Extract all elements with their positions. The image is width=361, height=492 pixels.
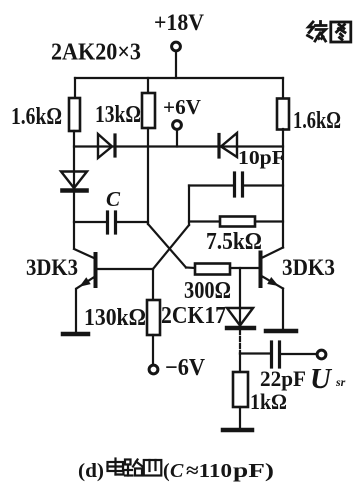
diode D1 right-pointing [98, 134, 115, 158]
wire left base lead [96, 268, 153, 270]
wire node to 1k [239, 354, 241, 373]
svg-text:3DK3: 3DK3 [282, 255, 335, 280]
svg-text:1.6kΩ: 1.6kΩ [293, 108, 341, 134]
label Usr [310, 363, 346, 395]
transistor Q2 right 3DK3 [261, 248, 284, 289]
wire 1k bottom lead [239, 407, 241, 428]
wire 13k top lead [147, 78, 149, 93]
wire 300 left lead [186, 266, 195, 269]
wire +18V drop [175, 51, 177, 78]
svg-text:7.5kΩ: 7.5kΩ [206, 229, 262, 255]
wire right rail drop [282, 78, 284, 99]
wire 130k bottom lead [152, 335, 154, 365]
svg-text:pF): pF) [233, 460, 274, 482]
ground bottom [223, 428, 252, 433]
wire 130k top lead [152, 269, 154, 300]
transistor Q1 left 3DK3 [74, 249, 96, 289]
wire left column upper [73, 131, 75, 189]
svg-text:+18V: +18V [154, 10, 204, 35]
wire right emitter [282, 289, 284, 330]
wire 2CK17 bottom dashed [239, 330, 241, 354]
wire right column [282, 129, 284, 248]
wire diode rail [74, 145, 283, 147]
svg-text:+6V: +6V [163, 95, 201, 119]
wire cross diagonal A [148, 224, 186, 268]
resistor 1k [233, 372, 248, 407]
ground left emitter [63, 332, 88, 337]
wire 2CK17 top lead [239, 268, 241, 308]
svg-text:(d): (d) [78, 460, 104, 482]
svg-text:C: C [170, 460, 184, 482]
svg-text:−6V: −6V [165, 355, 206, 381]
diode D3 zener left [61, 172, 87, 191]
caption formula [163, 460, 274, 482]
svg-text:C: C [106, 187, 121, 211]
svg-text:22pF: 22pF [260, 366, 306, 391]
svg-text:1.6kΩ: 1.6kΩ [11, 104, 62, 130]
wire left column lower [73, 189, 75, 248]
svg-text:1kΩ: 1kΩ [250, 389, 287, 414]
capacitor 10pF [189, 173, 283, 196]
svg-text:3DK3: 3DK3 [26, 255, 78, 280]
wire 13k bottom column [147, 128, 149, 224]
terminal -6V [149, 365, 158, 374]
svg-text:13kΩ: 13kΩ [95, 102, 141, 128]
svg-text:2CK17: 2CK17 [161, 303, 226, 329]
resistor 300 [195, 264, 230, 275]
resistor 1.6k left [69, 98, 80, 131]
svg-text:130kΩ: 130kΩ [84, 305, 146, 331]
diode D2 left-pointing [219, 133, 237, 157]
svg-text:U: U [310, 363, 333, 395]
caption (d) circuit four [78, 459, 274, 483]
svg-text:2AK20×3: 2AK20×3 [51, 40, 141, 66]
glyph xu [308, 22, 327, 42]
resistor 1.6k right [277, 99, 289, 130]
resistor 7.5k [189, 186, 283, 227]
terminal Usr [317, 350, 326, 359]
terminal +6V [173, 121, 182, 130]
ground right emitter [266, 329, 296, 334]
svg-text:10pF: 10pF [238, 147, 285, 169]
wire left emitter [75, 289, 77, 332]
wire left rail drop [74, 78, 76, 98]
svg-text:(: ( [163, 460, 170, 482]
wire +6V stub [176, 130, 178, 147]
svg-text:≈110: ≈110 [186, 460, 232, 482]
glyph tu [331, 22, 351, 42]
glyph lu [125, 460, 143, 476]
label xutu (continued figure) [308, 22, 351, 43]
svg-text:300Ω: 300Ω [184, 278, 231, 304]
glyph si [144, 460, 162, 476]
resistor 130k [147, 300, 160, 335]
capacitor C [74, 212, 148, 233]
svg-text:sr: sr [335, 375, 346, 389]
terminal +18V [172, 42, 181, 51]
capacitor 22pF [240, 342, 317, 367]
glyph dian [108, 459, 124, 475]
wire 300 right lead [230, 267, 259, 269]
diode D4 2CK17 [227, 308, 254, 328]
wire cross diagonal B [153, 225, 189, 269]
wire top rail [75, 77, 283, 79]
resistor 13k [142, 93, 155, 128]
